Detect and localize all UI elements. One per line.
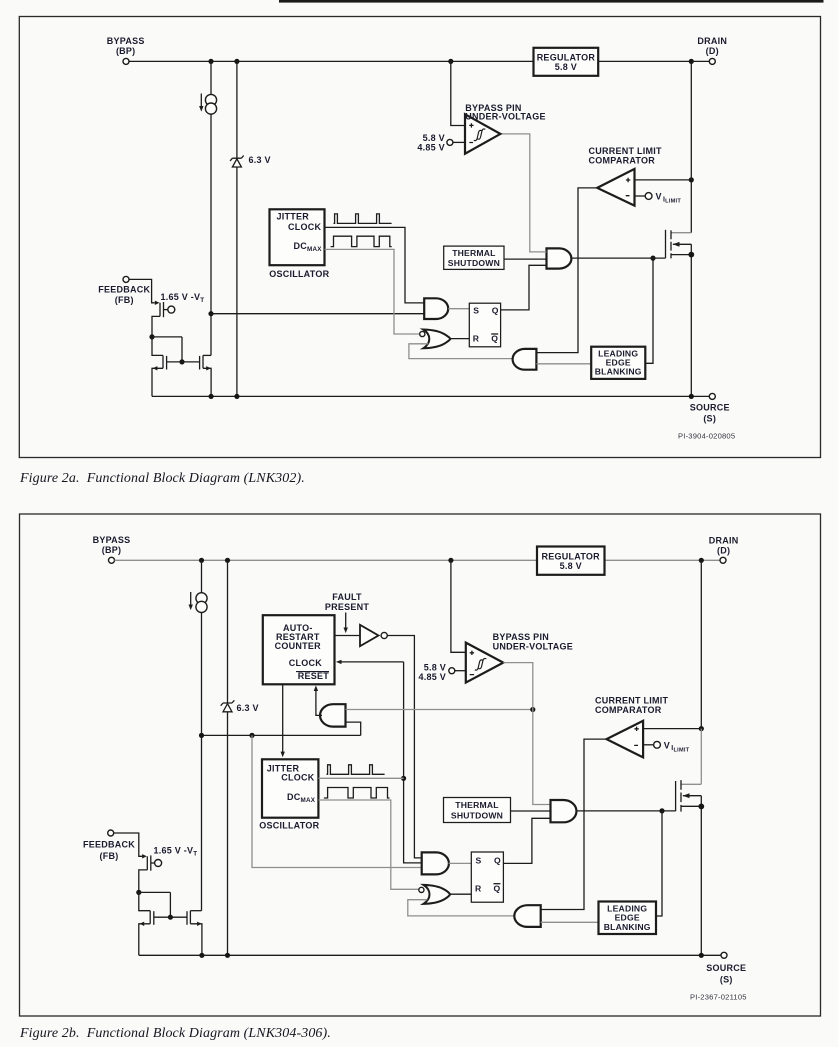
node junction UV line: [530, 707, 535, 712]
wire S gate output to latch fig2b: [449, 862, 472, 864]
label leading edge blanking fig2b: [604, 903, 651, 931]
svg-text:R: R: [473, 334, 480, 344]
node junction gate tap fig2b: [659, 808, 664, 813]
latch U3 SR box fig2b: [471, 852, 503, 902]
svg-text:DRAIN: DRAIN: [709, 536, 739, 546]
node junction mirror gate fig2b: [168, 915, 173, 920]
svg-text:BYPASS: BYPASS: [93, 535, 131, 545]
svg-text:UNDER-VOLTAGE: UNDER-VOLTAGE: [493, 641, 573, 651]
zener diode 6.3V fig2b: [221, 700, 235, 712]
box THERMAL SHUTDOWN fig2b: [444, 798, 511, 823]
wire BP sense horizontal: [202, 734, 361, 736]
label leading edge blanking: [595, 349, 642, 377]
wire latch Q to main AND fig2b: [503, 818, 550, 863]
waveform jitter clock pulses: [334, 214, 392, 224]
svg-text:4.85 V: 4.85 V: [418, 672, 446, 682]
node junction DRAIN: [689, 59, 694, 64]
svg-text:(D): (D): [706, 46, 719, 56]
transistor Q2 mirror left NMOS fig2b: [139, 892, 154, 955]
svg-text:4.85 V: 4.85 V: [417, 142, 445, 152]
pin label DRAIN (D): [697, 36, 727, 56]
svg-text:(S): (S): [703, 413, 716, 423]
figure 2a border frame: [19, 17, 820, 458]
wire BP node to current source fig2b: [201, 560, 203, 593]
pin FEEDBACK circle fig2b: [108, 830, 114, 836]
pin ILIMIT reference circle: [645, 193, 652, 200]
gate U4 reset OR: [423, 330, 450, 349]
bubble on OR input: [420, 331, 425, 336]
figure 2b border frame: [20, 514, 821, 1016]
gate U6 main drive AND: [547, 248, 572, 268]
svg-text:SOURCE: SOURCE: [706, 963, 746, 973]
svg-text:Q: Q: [492, 305, 499, 315]
svg-text:(BP): (BP): [102, 545, 122, 555]
gate U5 blanking AND (faces left): [513, 349, 537, 370]
wire current source down to mirror fig2b: [201, 613, 203, 911]
pin threshold input circle: [447, 139, 453, 145]
wire BP bus to UV comparator plus input: [451, 61, 465, 125]
wire CL comparator output to blanking AND: [536, 188, 597, 353]
wire BP node down to zener fig2b: [227, 560, 229, 703]
svg-text:UNDER-VOLTAGE: UNDER-VOLTAGE: [465, 112, 545, 122]
wire inverter output to S gate: [387, 636, 422, 858]
waveform jitter clock pulses fig2b: [327, 765, 385, 775]
arrowhead into sense transistor fig2b: [142, 854, 147, 858]
node junction mirror input fig2b: [136, 890, 141, 895]
node junction drain sense: [689, 177, 694, 182]
wire DCmax output to R gate bubble fig2b: [318, 800, 419, 889]
wire TS output to main AND: [504, 258, 547, 260]
box LEADING EDGE BLANKING fig2b: [599, 902, 657, 935]
label regulator fig2b: [541, 551, 600, 570]
svg-text:THERMAL: THERMAL: [455, 800, 498, 810]
transistor Q1 feedback sense PMOS fig2b: [139, 855, 162, 892]
svg-text:SHUTDOWN: SHUTDOWN: [451, 811, 503, 821]
svg-text:FAULT: FAULT: [332, 592, 362, 602]
wire zener to source rail: [236, 167, 238, 396]
label latch S Q R Qbar: [473, 305, 499, 343]
node junction BP bus zener fig2b: [225, 558, 230, 563]
wire sense branch down to S gate: [252, 735, 422, 867]
wire current source down to mirror: [210, 114, 212, 355]
wire BP node down to zener: [236, 61, 238, 158]
comparator U7 current limit fig2b: [607, 721, 644, 758]
gate U6 main drive AND fig2b: [551, 800, 577, 822]
pin ILIMIT circle fig2b: [654, 741, 661, 748]
oscillator box: [270, 209, 325, 265]
svg-text:OSCILLATOR: OSCILLATOR: [269, 269, 329, 279]
transistor Q2 mirror left NMOS: [152, 337, 167, 397]
wire reset AND lower input to BP sense: [346, 722, 361, 735]
label CURRENT LIMIT COMPARATOR: [589, 146, 662, 165]
label auto-restart counter: [275, 623, 321, 651]
pin BYPASS terminal circle fig2b: [109, 557, 115, 563]
box REGULATOR 5.8V: [534, 48, 599, 76]
svg-text:Q: Q: [494, 883, 501, 893]
box AUTO-RESTART COUNTER: [263, 615, 335, 684]
node junction on BP bus (zener): [234, 59, 239, 64]
wire UV ok to reset AND upper input: [346, 709, 533, 711]
svg-text:SOURCE: SOURCE: [690, 403, 730, 413]
node junction MOSFET source fig2b: [698, 804, 704, 810]
wire main AND output to MOSFET gate: [571, 257, 665, 259]
label thresholds fig2b: [418, 662, 446, 682]
svg-text:VILIMIT: VILIMIT: [664, 740, 690, 753]
gate U4 reset OR fig2b: [424, 885, 451, 904]
wire OR output to latch R fig2b: [450, 893, 471, 895]
wire CL minus input fig2b: [643, 744, 654, 746]
transistor Q3 mirror right NMOS: [200, 355, 212, 396]
wire clock feedback to ARC clock input: [336, 660, 404, 664]
svg-text:CLOCK: CLOCK: [289, 658, 322, 668]
current source I1: [199, 94, 216, 115]
svg-text:BYPASS: BYPASS: [107, 36, 145, 46]
node junction mirror to rail: [209, 394, 214, 399]
arrow fault present pointer: [344, 613, 348, 634]
wire FB pin to sense transistor: [129, 279, 155, 302]
gate U9 reset AND (faces left): [320, 704, 345, 726]
svg-text:FEEDBACK: FEEDBACK: [98, 284, 150, 294]
svg-text:SHUTDOWN: SHUTDOWN: [448, 258, 500, 268]
pin label FEEDBACK (FB) fig2b: [83, 839, 135, 861]
node junction on BP bus (UV comparator feed): [448, 59, 453, 64]
svg-text:THERMAL: THERMAL: [452, 248, 495, 258]
wire DCmax output to R gate bubble: [325, 249, 420, 334]
wire TS output fig2b: [511, 810, 551, 812]
wire ARC to oscillator control: [281, 684, 285, 757]
node junction BP bus current source fig2b: [199, 558, 204, 563]
node junction zener to rail: [234, 394, 239, 399]
label BYPASS PIN UNDER-VOLTAGE: [465, 103, 545, 122]
wire threshold to comparator fig2b: [455, 670, 466, 672]
pin label DRAIN (D) fig2b: [709, 536, 739, 556]
wire BP bus to regulator fig2b: [115, 559, 538, 561]
label latch letters fig2b: [475, 855, 501, 893]
svg-text:Q: Q: [494, 855, 501, 865]
pin label BYPASS (BP) fig2b: [93, 535, 131, 555]
pin threshold circle fig2b: [449, 668, 455, 674]
wire BP bus to regulator: [129, 60, 534, 62]
svg-text:(S): (S): [720, 974, 733, 984]
wire ARC output to inverter: [335, 635, 361, 637]
svg-text:Q: Q: [491, 334, 498, 344]
pin SOURCE terminal circle fig2b: [721, 952, 727, 958]
node junction drain sense fig2b: [699, 726, 704, 731]
svg-text:COUNTER: COUNTER: [275, 641, 321, 651]
wire FB sense node to S gate: [211, 313, 425, 315]
svg-text:(FB): (FB): [115, 295, 134, 305]
pin label BYPASS (BP): [107, 36, 145, 56]
svg-text:6.3 V: 6.3 V: [237, 703, 259, 713]
node junction drain fig2b: [699, 558, 704, 563]
wire regulator to drain fig2b: [605, 559, 721, 561]
svg-text:1.65 V -VT: 1.65 V -VT: [154, 845, 198, 857]
bubble on OR input fig2b: [419, 887, 424, 892]
wire CL comparator plus input from drain: [635, 179, 692, 181]
wire main AND output to MOSFET gate fig2b: [577, 810, 676, 812]
label JITTER CLOCK fig2b: [267, 764, 315, 783]
wire CL comparator minus input: [635, 195, 646, 197]
gate U2 set AND fig2b: [422, 852, 449, 874]
label regulator 5.8 V: [537, 53, 596, 72]
waveform DCmax square wave: [331, 236, 392, 246]
label 5.8V 4.85V thresholds: [417, 133, 445, 153]
wire mirror gate link: [167, 361, 200, 363]
node junction zener to rail fig2b: [225, 953, 230, 958]
svg-text:RESET: RESET: [298, 671, 330, 681]
svg-text:(D): (D): [717, 546, 730, 556]
wire LEB output to blanking AND fig2b: [541, 921, 599, 923]
pin DRAIN terminal circle fig2b: [720, 557, 726, 563]
arrowhead into sense transistor: [155, 301, 160, 305]
gate U5 blanking AND fig2b (faces left): [514, 905, 540, 927]
svg-text:CLOCK: CLOCK: [288, 222, 321, 232]
current source I1 fig2b: [189, 592, 208, 613]
node junction sense at current source line: [199, 733, 204, 738]
pin FEEDBACK terminal circle: [123, 276, 129, 282]
node junction mirror to rail fig2b: [199, 953, 204, 958]
node junction MOSFET source: [688, 252, 694, 258]
wire latch Q to main AND: [501, 265, 547, 310]
wire source rail: [152, 395, 709, 397]
node junction MOSFET to rail fig2b: [699, 953, 704, 958]
wire OR output to latch R: [450, 338, 469, 340]
wire LEB output to blanking AND: [536, 363, 591, 365]
svg-text:JITTER: JITTER: [277, 212, 310, 222]
wire diode connection fig2b: [139, 892, 171, 917]
pin label SOURCE (S) fig2b: [706, 963, 746, 984]
pin label FEEDBACK (FB): [98, 284, 150, 305]
node junction FB sense tap: [208, 311, 213, 316]
wire regulator to drain node: [598, 60, 709, 62]
header rule bar: [279, 0, 824, 3]
transistor Q3 mirror right NMOS fig2b: [187, 911, 202, 956]
wire UV output gray rail fig2b: [503, 663, 550, 805]
waveform DCmax square wave fig2b: [324, 788, 390, 799]
svg-text:PRESENT: PRESENT: [325, 602, 370, 612]
svg-text:5.8 V: 5.8 V: [560, 561, 582, 571]
wire clock vertical rail fig2b: [404, 662, 423, 863]
svg-text:6.3 V: 6.3 V: [249, 155, 271, 165]
svg-text:5.8 V: 5.8 V: [423, 133, 445, 143]
svg-text:S: S: [476, 855, 482, 865]
wire source rail fig2b: [139, 954, 721, 956]
label BYPASS PIN UNDER-VOLTAGE fig2b: [493, 632, 573, 651]
comparator U1 bypass under-voltage fig2b: [466, 643, 504, 683]
box LEADING EDGE BLANKING: [591, 347, 645, 379]
wire mirror gate link fig2b: [154, 916, 187, 918]
node junction MOSFET to rail: [689, 394, 694, 399]
svg-text:PI-2367-021105: PI-2367-021105: [690, 993, 747, 1002]
label thermal shutdown: [448, 248, 500, 268]
wire clock output to S gate: [325, 227, 425, 303]
wire diode connection to mirror gates: [152, 337, 182, 362]
wire clock output fig2b: [318, 777, 403, 779]
svg-text:PI-3904-020805: PI-3904-020805: [678, 432, 735, 441]
node junction mirror input: [149, 334, 154, 339]
pin BYPASS terminal circle: [123, 58, 129, 64]
wire BP node down to current source: [210, 61, 212, 94]
svg-text:Figure 2b. Functional Block D: Figure 2b. Functional Block Diagram (LNK…: [19, 1026, 331, 1041]
wire reset AND output to RESET input: [314, 685, 322, 715]
node junction BP bus UV feed fig2b: [448, 558, 453, 563]
inverter U8 fault: [360, 625, 387, 646]
svg-text:S: S: [473, 305, 479, 315]
svg-text:CLOCK: CLOCK: [281, 772, 314, 782]
wire OR lower input loop from blanking AND: [409, 344, 513, 359]
svg-text:1.65 V -VT: 1.65 V -VT: [161, 292, 205, 304]
wire BP bus to UV plus input fig2b: [451, 560, 466, 652]
svg-text:Figure 2a. Functional Block D: Figure 2a. Functional Block Diagram (LNK…: [19, 471, 305, 486]
wire CL plus input from drain fig2b: [643, 728, 701, 730]
svg-text:OSCILLATOR: OSCILLATOR: [259, 821, 319, 831]
svg-text:BLANKING: BLANKING: [604, 922, 651, 932]
svg-text:5.8 V: 5.8 V: [424, 662, 446, 672]
box REGULATOR fig2b: [537, 547, 605, 575]
node junction on BP bus (current source): [208, 59, 213, 64]
wire UV comparator output to main AND: [500, 134, 546, 252]
label RESET with overbar: [296, 671, 329, 681]
pin label SOURCE (S): [690, 403, 730, 424]
svg-text:FEEDBACK: FEEDBACK: [83, 839, 135, 849]
svg-text:VILIMIT: VILIMIT: [656, 192, 682, 205]
svg-text:COMPARATOR: COMPARATOR: [589, 155, 656, 165]
svg-text:5.8 V: 5.8 V: [555, 62, 577, 72]
transistor Q4 power MOSFET: [666, 61, 692, 396]
svg-text:(FB): (FB): [100, 851, 119, 861]
wire threshold to UV comparator: [453, 141, 465, 143]
gate U2 set AND: [424, 298, 448, 319]
pin SOURCE terminal circle: [709, 393, 715, 399]
wire S gate output to latch: [448, 308, 469, 310]
wire LEB input tap fig2b: [656, 811, 662, 916]
wire OR lower input loop fig2b: [408, 900, 515, 916]
zener diode 6.3V: [230, 156, 244, 168]
label FAULT PRESENT: [325, 592, 370, 612]
label JITTER CLOCK: [277, 212, 322, 232]
node junction gate tap: [650, 256, 655, 261]
box THERMAL SHUTDOWN: [444, 246, 504, 269]
label thermal shutdown fig2b: [451, 800, 503, 821]
node junction sense branch: [249, 733, 254, 738]
svg-text:R: R: [475, 883, 482, 893]
transistor Q1 feedback sense PMOS: [152, 302, 175, 337]
label CURRENT LIMIT COMPARATOR fig2b: [595, 696, 668, 715]
comparator U7 current limit (faces left): [597, 169, 634, 206]
svg-text:COMPARATOR: COMPARATOR: [595, 705, 662, 715]
comparator U1 bypass pin under-voltage: [465, 114, 500, 154]
node junction mirror gate: [179, 359, 184, 364]
wire zener to source rail fig2b: [227, 712, 229, 956]
svg-text:(BP): (BP): [116, 46, 136, 56]
oscillator box fig2b: [262, 759, 318, 817]
wire CL output to blanking AND fig2b: [541, 739, 607, 909]
node junction clock tap: [401, 776, 406, 781]
transistor Q4 power MOSFET fig2b: [676, 560, 702, 955]
latch U3 SR box: [469, 303, 500, 347]
svg-text:BLANKING: BLANKING: [595, 367, 642, 377]
wire LEB input tap from gate node: [645, 258, 653, 363]
svg-text:DRAIN: DRAIN: [697, 36, 727, 46]
wire FB pin to sense transistor fig2b: [114, 833, 142, 856]
pin DRAIN terminal circle: [709, 58, 715, 64]
